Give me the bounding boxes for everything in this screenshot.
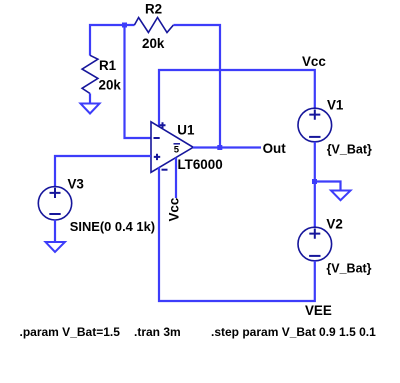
wire op-amp output xyxy=(193,146,261,148)
svg-text:{V_Bat}: {V_Bat} xyxy=(326,262,371,276)
op-amp V- minus marker xyxy=(162,169,168,171)
svg-text:V2: V2 xyxy=(326,217,342,232)
svg-text:.tran 3m: .tran 3m xyxy=(134,325,181,339)
svg-text:VEE: VEE xyxy=(305,303,332,318)
resistor R1 xyxy=(82,55,98,93)
node junction at R1/R2/feedback xyxy=(122,23,127,28)
svg-text:.step param V_Bat 0.9 1.5 0.1: .step param V_Bat 0.9 1.5 0.1 xyxy=(211,325,376,339)
svg-text:V1: V1 xyxy=(327,98,344,113)
svg-text:5: 5 xyxy=(174,144,180,155)
svg-text:U1: U1 xyxy=(177,123,195,138)
svg-text:V3: V3 xyxy=(68,177,84,192)
voltage source V2 xyxy=(298,227,332,261)
svg-text:{V_Bat}: {V_Bat} xyxy=(327,143,372,157)
svg-text:SINE(0 0.4 1k): SINE(0 0.4 1k) xyxy=(70,219,155,234)
op-amp U1 triangle xyxy=(151,122,193,173)
V1 plus marker xyxy=(309,110,320,120)
wire pin5 to Vcc flag xyxy=(175,158,177,198)
svg-text:LT6000: LT6000 xyxy=(178,157,223,172)
op-amp inverting input minus marker xyxy=(154,137,160,139)
wire Vcc rail to op-amp V+ and V1 xyxy=(159,70,315,127)
wire V3 bottom to ground xyxy=(54,220,56,242)
ground (below V3) xyxy=(46,242,65,252)
wire junction to ground branch xyxy=(315,182,341,191)
svg-text:20k: 20k xyxy=(99,78,122,93)
node junction between V1 and V2 xyxy=(312,179,317,184)
wire V3 to non-inverting input xyxy=(55,156,151,187)
svg-text:Out: Out xyxy=(263,141,287,156)
svg-text:R2: R2 xyxy=(145,2,162,17)
svg-text:.param V_Bat=1.5: .param V_Bat=1.5 xyxy=(20,325,121,339)
resistor R2 xyxy=(134,18,173,33)
wire V1 bottom to V2 top xyxy=(314,142,316,228)
svg-text:20k: 20k xyxy=(142,36,165,51)
V2 plus marker xyxy=(309,229,320,239)
op-amp non-inverting input plus marker xyxy=(154,154,160,160)
op-amp V+ plus marker xyxy=(160,122,166,128)
svg-text:Vcc: Vcc xyxy=(167,197,182,221)
wire feedback down to inverting input xyxy=(125,25,152,138)
voltage source V1 xyxy=(298,108,332,142)
node junction at output xyxy=(217,145,222,150)
V2 minus marker xyxy=(309,255,320,257)
wire top-left from R2 left to R1 top xyxy=(90,25,135,56)
V3 minus marker xyxy=(49,213,60,215)
svg-text:Vcc: Vcc xyxy=(302,54,326,69)
ground (mid supply) xyxy=(331,191,351,201)
svg-text:R1: R1 xyxy=(99,58,117,73)
wire R1 bottom to ground xyxy=(89,94,91,104)
wire V2 bottom along VEE rail to op-amp V- xyxy=(159,167,315,301)
V1 minus marker xyxy=(309,136,320,138)
ground (below R1) xyxy=(81,104,100,114)
wire R2 right down to output node xyxy=(173,25,220,148)
V3 plus marker xyxy=(50,188,61,198)
voltage source V3 xyxy=(38,187,71,220)
